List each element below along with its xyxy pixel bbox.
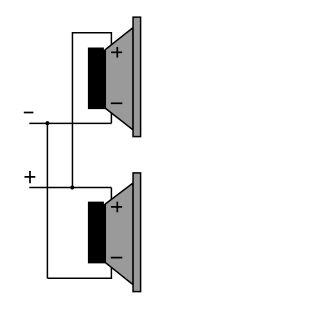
speaker LS2 magnet [88,202,106,264]
wire: series link from node A down and right to LS2 bottom [46,123,48,278]
speaker LS2 plus polarity mark [111,202,122,213]
speaker LS2 frame (right and bottom edges) [47,188,111,279]
wire: interconnect LS1 left edge down to node B [71,123,73,187]
node B junction dot [70,186,74,190]
speaker LS1 minus polarity mark [111,102,123,104]
speaker LS2 minus polarity mark [111,257,123,259]
speaker LS1 frame [72,33,111,124]
speaker LS1 magnet [88,48,106,110]
speaker LS2 cone [105,183,133,285]
plus terminal label [25,171,36,183]
speaker LS1 plus polarity mark [111,47,122,58]
node A junction dot [45,121,49,125]
speaker LS2 rim [133,173,141,292]
speaker LS1 rim [133,17,141,136]
wire: negative feed + speaker LS1 frame bottom edge [29,122,111,124]
speaker LS1 cone [105,28,133,130]
minus terminal label [24,112,34,114]
wire: positive feed + speaker LS2 frame top edge [29,187,111,189]
